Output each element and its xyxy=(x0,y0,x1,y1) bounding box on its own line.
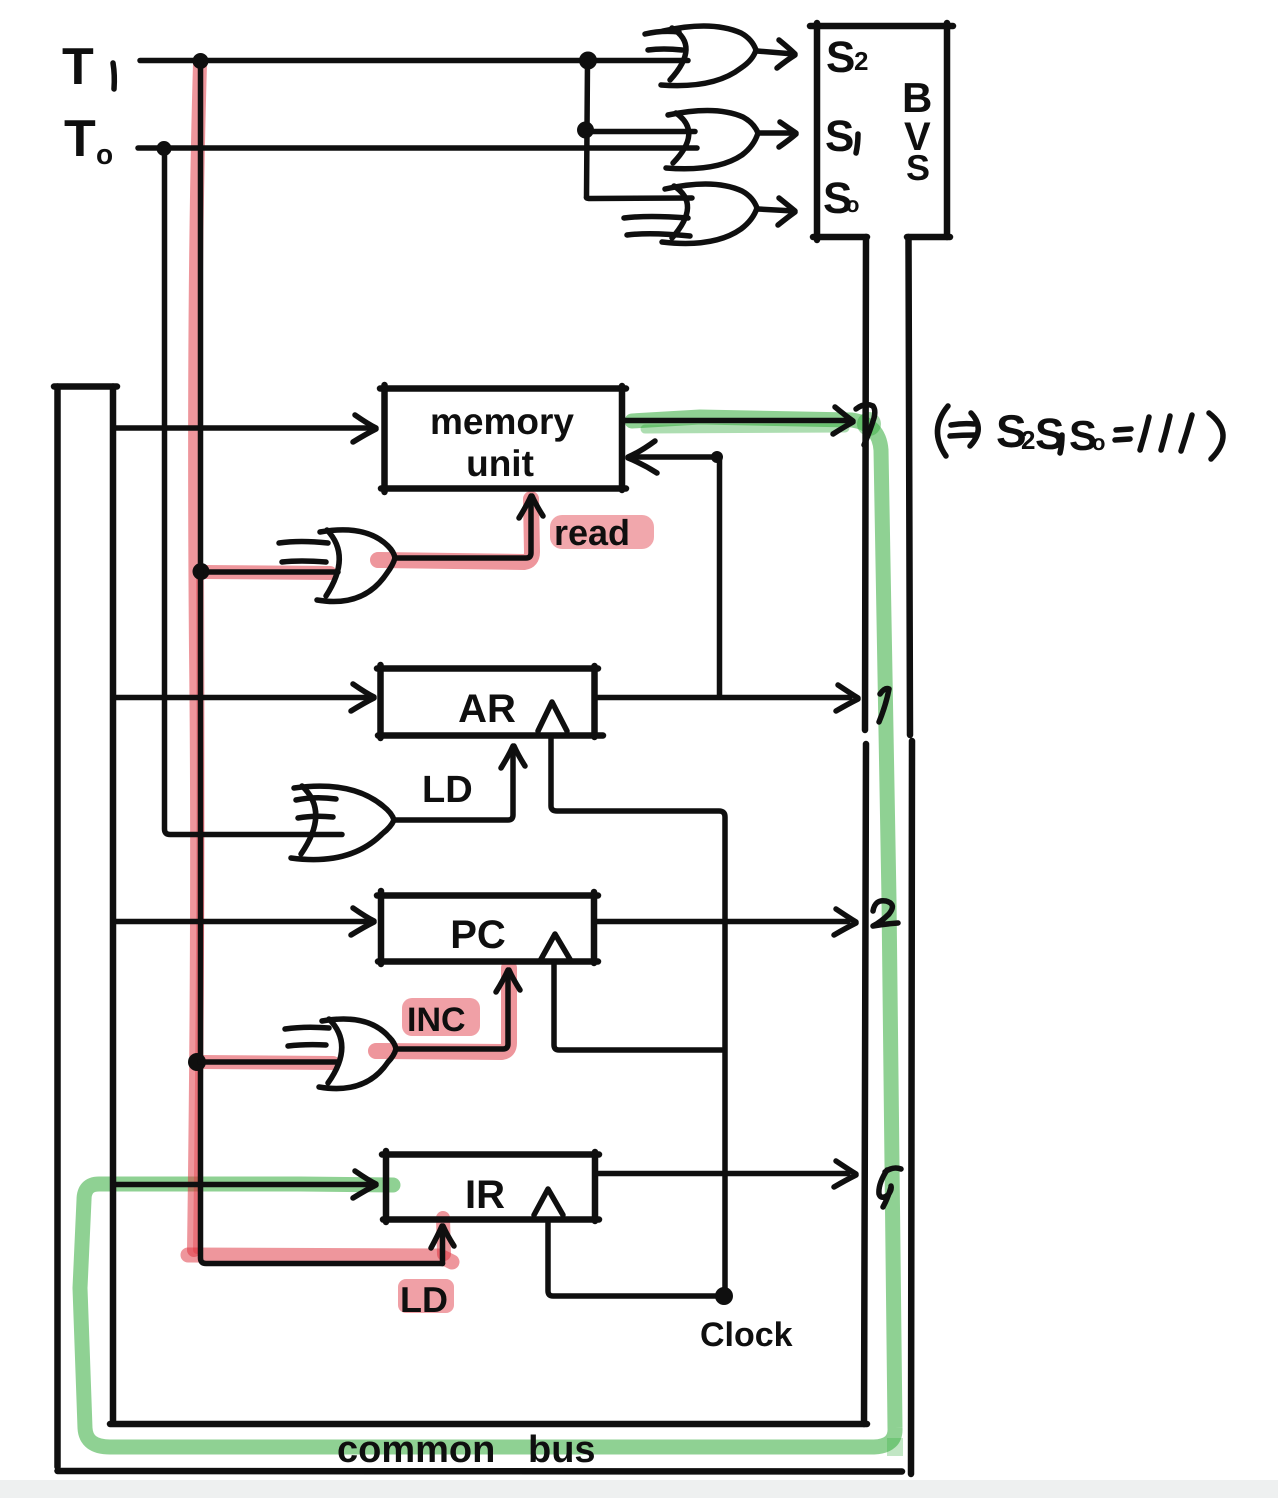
svg-text:S: S xyxy=(826,33,855,82)
junction INC tap xyxy=(188,1053,206,1071)
wire T1 xyxy=(140,58,688,64)
common bus left return inner rail xyxy=(110,387,117,1422)
svg-text:2: 2 xyxy=(1021,425,1035,455)
svg-text:S: S xyxy=(825,112,854,161)
green highlight: memory output to bus, down common bus, to IR input xyxy=(80,417,895,1447)
wire AR clock to trunk xyxy=(551,736,725,1294)
wire PC output to bus (node 2) xyxy=(594,919,848,925)
svg-text:LD: LD xyxy=(400,1279,448,1320)
BUS box xyxy=(810,23,953,240)
svg-text:B: B xyxy=(902,74,932,121)
svg-text:o: o xyxy=(846,192,859,217)
junction T0 / left drop xyxy=(157,141,172,156)
node 2 xyxy=(873,901,898,926)
wire bus to AR input xyxy=(115,695,368,701)
svg-text:o: o xyxy=(1092,430,1105,455)
red highlight: read label band xyxy=(550,515,654,549)
svg-text:Clock: Clock xyxy=(700,1316,793,1354)
svg-text:INC: INC xyxy=(407,1001,466,1039)
wire T0 drop to LD gate xyxy=(165,149,343,835)
node 5 xyxy=(879,1168,901,1207)
wire bus to memory input xyxy=(115,425,370,431)
wire S1 output arrow xyxy=(759,130,795,136)
svg-text:common: common xyxy=(337,1429,495,1471)
red highlight: IR LD wire xyxy=(188,1255,452,1262)
or-gate read xyxy=(279,530,395,602)
svg-text:S: S xyxy=(906,147,930,188)
or-gate S2 xyxy=(645,26,756,86)
junction S1 branch xyxy=(577,122,594,139)
common bus left return outer rail xyxy=(54,387,61,1468)
svg-text:T: T xyxy=(64,110,96,168)
clock wedge PC xyxy=(540,934,571,961)
annotation (=> S2S1S0 = 111) xyxy=(937,405,1223,459)
svg-text:bus: bus xyxy=(528,1429,596,1471)
red highlight: INC tap and gate output to PC xyxy=(200,1062,333,1063)
wire PC clock to trunk xyxy=(554,962,722,1050)
wire AR output to bus (node 1) xyxy=(595,695,850,701)
wire IR clock to trunk xyxy=(548,1220,722,1296)
wire memory output to bus (node 7) xyxy=(623,418,850,424)
wire IR output to bus (node 5) xyxy=(595,1171,848,1177)
or-gate S1 xyxy=(666,110,758,168)
junction clock xyxy=(715,1287,733,1305)
svg-text:o: o xyxy=(96,139,113,170)
svg-text:memory: memory xyxy=(430,401,574,442)
red highlight: read tap and gate output to memory xyxy=(204,572,330,573)
or-gate AR LD xyxy=(291,786,394,860)
bus left rail xyxy=(864,237,866,1424)
or-gate INC xyxy=(285,1019,396,1089)
wire T1 tap to read gate xyxy=(203,569,338,575)
svg-text:T: T xyxy=(62,38,94,96)
wire clock trunk to memory xyxy=(634,454,714,460)
wire IR LD arrow xyxy=(440,1230,446,1264)
HIGHLIGHTS xyxy=(80,64,903,1456)
svg-text:AR: AR xyxy=(458,687,516,731)
red highlight: INC label band xyxy=(402,998,480,1036)
node 1 xyxy=(879,689,889,722)
common bus top cap xyxy=(54,383,117,390)
svg-text:2: 2 xyxy=(854,46,868,76)
bus right rail xyxy=(909,237,913,1474)
svg-text:IR: IR xyxy=(465,1173,505,1217)
wire read gate output to memory (red) xyxy=(395,500,531,558)
IR box xyxy=(382,1151,599,1222)
wire S0 output arrow xyxy=(758,209,794,211)
red highlight: LD label band (IR) xyxy=(398,1279,454,1313)
wire INC tap to gate xyxy=(200,1059,338,1065)
memory unit box xyxy=(380,385,626,492)
svg-text:read: read xyxy=(554,512,630,553)
svg-text:unit: unit xyxy=(466,443,534,484)
PC box xyxy=(377,891,598,964)
clock wedge AR xyxy=(538,702,567,731)
wire S2 output arrow xyxy=(757,51,794,54)
wire INC gate output to PC xyxy=(396,974,508,1049)
wire S-gate drop from T1 xyxy=(587,61,588,198)
junction read tap xyxy=(193,563,210,580)
or-gate S0 xyxy=(624,184,757,243)
common bus bottom inner wire xyxy=(110,1421,867,1428)
svg-text:PC: PC xyxy=(450,913,506,957)
wire bus to PC input xyxy=(115,919,368,925)
bottom screenshot edge strip xyxy=(0,1480,1278,1498)
clock wedge IR xyxy=(534,1189,563,1215)
junction T1 / left drop xyxy=(193,53,209,69)
common bus bottom outer wire xyxy=(58,1468,903,1475)
wire S0 branch xyxy=(587,198,693,199)
red highlight: T1 vertical rail xyxy=(194,64,200,1250)
svg-text:LD: LD xyxy=(422,769,473,811)
wire LD gate output to AR xyxy=(394,750,513,820)
wire T1 left drop (red path) xyxy=(201,61,443,1264)
AR box xyxy=(377,665,603,738)
green blob at node 7 xyxy=(857,412,881,436)
node 7 xyxy=(856,405,875,445)
wire T0 xyxy=(138,145,697,151)
wire bus to IR input (green path) xyxy=(114,1182,370,1188)
wire S1 branch xyxy=(586,129,695,135)
junction T1 / S-gate drop xyxy=(579,52,597,70)
